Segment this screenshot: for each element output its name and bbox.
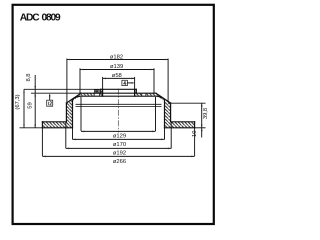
dim phi58 line <box>103 77 135 79</box>
drum interior edge upper <box>76 103 161 105</box>
svg-text:10: 10 <box>192 131 198 137</box>
dim 67,3 line <box>23 89 25 128</box>
dim phi129 ext right <box>155 97 157 131</box>
dim phi139 line <box>80 69 154 71</box>
arrows 59 <box>34 93 36 96</box>
dim phi58 ext left <box>102 77 104 89</box>
svg-text:ø58: ø58 <box>112 73 122 79</box>
dim phi192 ext left <box>65 122 67 148</box>
flange outer edge left <box>41 122 43 128</box>
flange outer edge right <box>194 122 196 128</box>
svg-text:59: 59 <box>28 102 34 108</box>
hatch wall right <box>165 101 171 122</box>
boxed label left <box>47 100 53 106</box>
bore left edge <box>102 89 104 96</box>
leader right box <box>127 82 133 84</box>
boss left side <box>100 89 102 93</box>
arrow leader left box <box>49 93 51 96</box>
hatch plate right A3 <box>135 89 142 96</box>
dim phi129 ext left <box>80 97 82 131</box>
dim phi170 ext right <box>164 128 166 139</box>
plate bottom face <box>80 95 157 97</box>
svg-text:ø170: ø170 <box>113 142 126 148</box>
arrowheads <box>23 59 202 158</box>
ext boss top left <box>24 88 101 90</box>
boxed label right <box>122 80 128 85</box>
ext flange bottom right <box>195 127 206 129</box>
flange top left <box>42 121 66 123</box>
wall outer right <box>170 103 172 122</box>
svg-text:ø266: ø266 <box>113 159 126 165</box>
arrows 8,8 <box>34 86 36 89</box>
arrows phi58 <box>103 78 106 80</box>
arrows phi170 <box>73 139 76 141</box>
dim phi170 line <box>73 138 165 140</box>
dim phi266 ext left <box>41 128 43 156</box>
bore right edge <box>134 89 136 96</box>
svg-text:ø192: ø192 <box>113 151 126 157</box>
hatch plate left A1 <box>81 93 95 96</box>
dimension graphics <box>20 59 206 157</box>
arrows 39,8 <box>201 103 203 106</box>
centerline <box>117 89 119 133</box>
dim phi139 ext right <box>153 68 155 93</box>
ext step right <box>168 102 206 104</box>
bolt hole left <box>94 90 99 97</box>
svg-text:(67,3): (67,3) <box>15 94 21 109</box>
boss top face <box>101 88 137 90</box>
dim phi182 ext left <box>66 59 68 104</box>
flange top right <box>171 121 195 123</box>
dim phi192 ext right <box>170 122 172 148</box>
wall inner right fillet <box>157 96 165 128</box>
hatch flange right <box>165 122 195 128</box>
arrows phi266 <box>42 156 45 158</box>
arrow leader right box <box>132 82 135 84</box>
svg-text:ø139: ø139 <box>110 64 123 70</box>
plate top face <box>81 92 156 94</box>
hatch flange left <box>42 122 72 128</box>
border frame <box>13 5 214 224</box>
dim phi170 ext left <box>72 128 74 139</box>
flange bottom left <box>42 127 72 129</box>
bolt hole right <box>142 93 146 96</box>
dim 59 and 8,8 line <box>34 75 36 128</box>
dim phi182 line <box>67 59 168 61</box>
dim phi139 ext left <box>79 68 81 94</box>
wall inner left fillet <box>73 96 81 128</box>
hatch shoulder left <box>66 93 81 103</box>
ext flange bottom far left <box>20 127 43 129</box>
arrows 10 <box>201 128 203 131</box>
svg-text:ADC 0809: ADC 0809 <box>20 13 61 24</box>
svg-text:39,8: 39,8 <box>203 108 209 119</box>
boss right side <box>135 89 137 93</box>
shoulder chamfer outer right <box>156 93 171 103</box>
hatch plate right A4 <box>146 93 157 96</box>
ext plate face left <box>31 92 81 94</box>
dim phi266 ext right <box>194 128 196 156</box>
shoulder chamfer outer left <box>66 93 81 103</box>
dim phi129 line <box>81 130 156 132</box>
wall outer left <box>65 103 67 122</box>
dim 39,8 line <box>201 103 203 128</box>
dim phi192 line <box>66 147 171 149</box>
drum interior edge lower <box>76 106 161 108</box>
dim phi266 line <box>42 155 194 157</box>
arrows phi182 <box>67 59 70 61</box>
arrows phi139 <box>80 69 83 71</box>
flange bottom right <box>165 127 195 129</box>
hatch wall left <box>66 101 72 122</box>
dim 10 line <box>201 128 203 138</box>
arrows phi192 <box>66 148 69 150</box>
arrows 67,3 <box>23 89 25 92</box>
arrows phi129 <box>81 131 84 133</box>
svg-text:ø182: ø182 <box>110 54 123 60</box>
leader left box <box>49 95 51 100</box>
dim phi182 ext right <box>167 59 169 102</box>
hatch shoulder right <box>156 93 171 103</box>
dim phi58 ext right <box>134 77 136 89</box>
hatch plate left A2 <box>99 89 102 96</box>
svg-text:8,8: 8,8 <box>26 73 32 81</box>
svg-text:ø129: ø129 <box>113 133 126 139</box>
